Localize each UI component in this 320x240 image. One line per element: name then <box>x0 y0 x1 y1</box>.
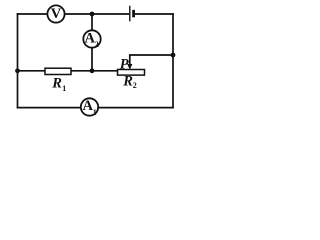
wire: bottom horizontal <box>18 107 174 109</box>
wire: middle horizontal (R1 / R2 row) <box>18 70 118 72</box>
resistor R1 <box>45 68 71 74</box>
ammeter A2 <box>83 30 100 47</box>
svg-text:1: 1 <box>62 84 66 93</box>
wire: right vertical branch <box>172 14 174 108</box>
svg-text:2: 2 <box>95 40 99 49</box>
node: top junction (A2 branch / top wire) <box>90 12 95 17</box>
svg-text:R: R <box>122 73 133 89</box>
wire: slider P to right branch <box>130 54 173 56</box>
rheostat R2 <box>118 70 145 76</box>
node: left junction (middle wire / left wire) <box>15 68 20 73</box>
wire: top horizontal (battery to right corner) <box>135 13 173 15</box>
svg-text:P: P <box>120 57 129 73</box>
ammeter A1 <box>81 98 98 115</box>
battery cell: long positive plate <box>129 6 131 22</box>
wire: left vertical branch <box>17 14 19 108</box>
svg-text:2: 2 <box>133 81 137 90</box>
battery cell: short negative plate <box>132 10 135 17</box>
wire: top horizontal (left corner to battery) <box>18 13 129 15</box>
wire: ammeter A2 vertical branch <box>91 14 93 71</box>
voltmeter V <box>47 5 64 22</box>
svg-text:V: V <box>51 6 62 22</box>
node: right junction (slider wire / right wire) <box>171 53 176 58</box>
svg-text:R: R <box>51 76 62 92</box>
node: middle junction (A2 branch / middle wire) <box>90 68 95 73</box>
svg-text:1: 1 <box>93 108 97 117</box>
slider P arrow <box>129 55 131 65</box>
